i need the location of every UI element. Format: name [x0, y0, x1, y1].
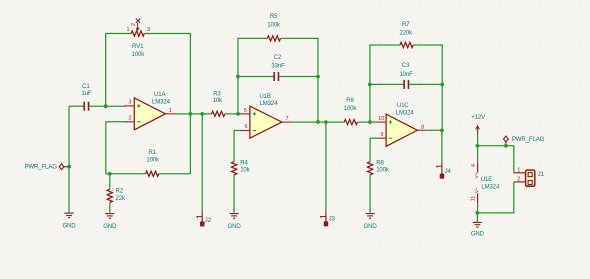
svg-text:GND: GND	[228, 223, 242, 230]
wire +12V down	[477, 136, 479, 163]
svg-text:8: 8	[421, 124, 424, 130]
wire U1A pin2 feedback	[106, 122, 146, 174]
junction node A (U1A + input)	[104, 104, 108, 108]
svg-text:U1E: U1E	[481, 176, 492, 183]
svg-text:GND: GND	[364, 223, 378, 230]
svg-text:V+: V+	[474, 172, 480, 178]
connector J4	[436, 163, 451, 178]
junction C3 left	[368, 83, 372, 87]
node PWR_FLAG (input flag)	[24, 164, 68, 171]
junction U1C input node	[368, 120, 372, 124]
svg-text:GND: GND	[62, 223, 76, 230]
svg-text:RV1: RV1	[132, 43, 144, 50]
svg-text:J4: J4	[445, 168, 452, 175]
svg-text:11: 11	[470, 196, 476, 201]
ground GND (input)	[62, 212, 76, 230]
svg-text:10: 10	[378, 116, 384, 122]
wire C3 row left	[370, 83, 404, 85]
svg-text:100k: 100k	[267, 21, 281, 28]
connector J3	[320, 211, 335, 226]
junction C2 left	[236, 75, 240, 79]
no-connect X on RV1 wiper	[136, 19, 140, 23]
wire U1B output	[292, 121, 345, 123]
capacitor C1 1uF	[81, 83, 91, 111]
svg-text:J2: J2	[205, 217, 212, 224]
wire R1 to output node	[159, 173, 191, 175]
svg-text:V−: V−	[474, 187, 480, 193]
svg-text:220k: 220k	[399, 30, 413, 37]
ground GND (power)	[471, 213, 485, 238]
svg-text:100k: 100k	[376, 167, 390, 174]
wire RV1 left vertical	[106, 34, 131, 107]
wire to J4	[441, 130, 443, 163]
junction C2 right	[316, 75, 320, 79]
svg-text:J1: J1	[538, 171, 545, 178]
svg-text:PWR_FLAG: PWR_FLAG	[24, 164, 57, 171]
svg-text:R5: R5	[270, 13, 278, 20]
capacitor C3 10nF	[399, 62, 413, 89]
svg-text:LM324: LM324	[259, 100, 278, 107]
junction +12V node	[476, 144, 480, 148]
ground GND (R8)	[364, 212, 378, 230]
junction U1B input node	[236, 112, 240, 116]
svg-text:PWR_FLAG: PWR_FLAG	[512, 136, 545, 143]
wire to J2	[201, 114, 203, 211]
svg-text:R6: R6	[346, 97, 354, 104]
wire C3 loop left vertical	[370, 45, 400, 122]
capacitor C2 33nF	[271, 54, 285, 81]
svg-text:1: 1	[517, 167, 520, 173]
svg-text:10k: 10k	[240, 167, 250, 174]
svg-text:100k: 100k	[344, 105, 358, 112]
wire U1A output	[175, 113, 212, 115]
svg-text:R2: R2	[116, 187, 124, 194]
op-amp U1B LM324	[240, 93, 291, 138]
svg-text:U1B: U1B	[259, 93, 270, 100]
resistor R2 22k	[107, 174, 126, 213]
wire R5 to loop right	[281, 38, 319, 122]
svg-text:3: 3	[147, 27, 150, 33]
wire input to C1	[69, 105, 84, 107]
svg-text:U1C: U1C	[397, 102, 409, 109]
wire R8 to ground	[369, 175, 371, 213]
ground GND (R2)	[103, 212, 117, 230]
wire R3 to U1B pin5	[225, 113, 241, 115]
svg-text:1: 1	[169, 108, 172, 114]
junction J3 tap	[324, 120, 328, 124]
wire ground node to J1 pin2	[477, 182, 513, 213]
wire input vertical	[68, 106, 70, 212]
wire R4 to ground	[233, 175, 235, 213]
op-amp power unit U1E LM324	[470, 163, 500, 203]
junction ground node	[476, 211, 480, 215]
wire C2 loop left vertical	[238, 38, 267, 113]
svg-text:1uF: 1uF	[81, 90, 91, 97]
node PWR_FLAG (supply flag)	[504, 136, 545, 146]
resistor R1 100k	[146, 149, 161, 177]
resistor R4 10k	[232, 160, 251, 175]
wire U1B pin6 to R4	[234, 131, 241, 162]
svg-text:J3: J3	[329, 216, 336, 223]
op-amp U1A LM324	[124, 91, 175, 130]
svg-text:22k: 22k	[116, 195, 126, 202]
resistor R3 10k	[212, 90, 225, 116]
wire C2 row right	[279, 76, 318, 78]
svg-text:LM324: LM324	[481, 183, 500, 190]
junction R2 tap	[108, 172, 112, 176]
wire R6 to U1C pin10	[357, 121, 378, 123]
svg-text:6: 6	[244, 124, 247, 130]
svg-text:1: 1	[127, 27, 130, 33]
svg-text:2: 2	[517, 176, 520, 182]
svg-text:5: 5	[244, 108, 247, 114]
svg-text:9: 9	[380, 132, 383, 138]
svg-text:7: 7	[285, 116, 288, 122]
junction U1C output	[440, 128, 444, 132]
svg-text:10nF: 10nF	[399, 71, 413, 78]
junction J2 tap	[200, 112, 204, 116]
resistor R7 220k	[399, 21, 413, 48]
svg-text:R4: R4	[240, 160, 248, 167]
wire R7 to loop right	[413, 45, 442, 130]
junction PWR_FLAG	[504, 144, 508, 148]
wire C3 row right	[409, 83, 443, 85]
svg-text:R8: R8	[376, 160, 384, 167]
svg-text:+12V: +12V	[471, 114, 486, 121]
svg-text:U1A: U1A	[154, 91, 166, 98]
junction C3 right	[440, 83, 444, 87]
svg-text:4: 4	[471, 164, 477, 167]
svg-text:100k: 100k	[132, 51, 146, 58]
svg-text:LM324: LM324	[152, 99, 171, 106]
wire +12V to J1 pin1	[477, 146, 513, 173]
svg-text:LM324: LM324	[396, 110, 415, 117]
ground GND (R4)	[228, 212, 242, 230]
resistor R6 100k	[344, 97, 358, 125]
resistor R5 100k	[267, 13, 281, 41]
power +12V	[471, 114, 486, 136]
svg-text:100k: 100k	[146, 156, 160, 163]
wire U1E pin11 to ground node	[477, 203, 479, 213]
svg-text:2: 2	[131, 23, 137, 26]
svg-text:C3: C3	[402, 62, 410, 69]
resistor R8 100k	[368, 160, 390, 175]
connector J2	[197, 211, 212, 226]
wire C2 row left	[238, 76, 274, 78]
svg-text:10k: 10k	[213, 97, 223, 104]
junction U1B output loop	[316, 120, 320, 124]
svg-text:GND: GND	[103, 223, 117, 230]
wire U1C output	[427, 129, 442, 131]
svg-text:GND: GND	[471, 231, 485, 238]
svg-text:R1: R1	[148, 149, 156, 156]
wire U1C pin9 to R8	[370, 138, 378, 161]
potentiometer RV1 100k	[127, 23, 151, 58]
svg-text:R7: R7	[402, 21, 410, 28]
svg-text:2: 2	[129, 116, 132, 122]
connector J1	[514, 167, 545, 186]
svg-text:C2: C2	[274, 54, 282, 61]
wire to J3	[325, 122, 327, 211]
svg-text:3: 3	[129, 99, 132, 105]
wire C1 to U1A pin3	[89, 105, 126, 107]
junction U1A output	[189, 112, 193, 116]
svg-text:33nF: 33nF	[271, 63, 285, 70]
junction at PWR_FLAG	[67, 165, 71, 169]
op-amp U1C LM324	[378, 102, 427, 146]
wire RV1 right to output	[144, 34, 190, 174]
